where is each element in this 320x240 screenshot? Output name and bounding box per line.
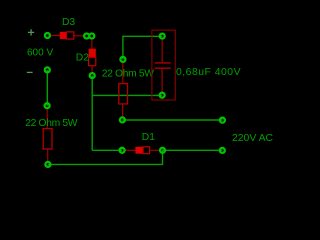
wire D2 bottom down to D1 row: [91, 76, 93, 151]
wire R2 bottom to 220V AC top terminal: [122, 119, 222, 121]
node R1 top pad: [45, 103, 50, 108]
node AC top terminal pad: [220, 118, 225, 123]
svg-text:D3: D3: [62, 17, 75, 28]
wire branch to capacitor bottom: [92, 94, 162, 96]
svg-text:D2: D2: [76, 52, 89, 63]
diode D3: [50, 32, 85, 39]
node D2 top pad: [89, 34, 94, 39]
svg-text:220V AC: 220V AC: [232, 133, 274, 144]
node pads: [45, 33, 225, 167]
wire minus to R1: [46, 70, 48, 106]
wire to D1 left pad: [92, 149, 122, 151]
node R2 bottom pad: [120, 117, 125, 122]
wire D1 right to 220V AC bottom terminal: [163, 149, 223, 151]
node D2 bottom pad: [90, 73, 95, 78]
node plus terminal: [28, 29, 34, 35]
node D3 anode pad: [45, 33, 50, 38]
node C1 bottom pad: [160, 93, 165, 98]
node D3 cathode pad: [84, 34, 89, 39]
svg-text:22 Ohm 5W: 22 Ohm 5W: [25, 118, 77, 129]
node R2 top pad: [120, 57, 125, 62]
node D1 cathode pad: [160, 148, 165, 153]
node AC bottom terminal pad: [220, 148, 225, 153]
node minus pad: [45, 67, 50, 72]
node D1 anode pad: [120, 148, 125, 153]
svg-text:0,68uF 400V: 0,68uF 400V: [176, 67, 241, 78]
node R1 bottom pad: [45, 162, 50, 167]
wire R1 bottom to D1 right pad: [48, 150, 163, 164]
resistor R1 22 Ohm 5W: [43, 108, 52, 162]
resistor R2 22 Ohm 5W: [119, 62, 128, 118]
svg-text:D1: D1: [142, 132, 155, 143]
wire R2 top to capacitor top: [123, 36, 162, 59]
node C1 top pad: [160, 34, 165, 39]
diode D1: [124, 147, 160, 154]
capacitor C1: [155, 38, 171, 93]
svg-text:600 V: 600 V: [27, 47, 53, 58]
diode D2: [89, 38, 96, 74]
capacitor C1 outline box: [152, 30, 175, 100]
node minus terminal: [27, 71, 33, 73]
svg-text:22 Ohm 5W: 22 Ohm 5W: [102, 69, 154, 80]
